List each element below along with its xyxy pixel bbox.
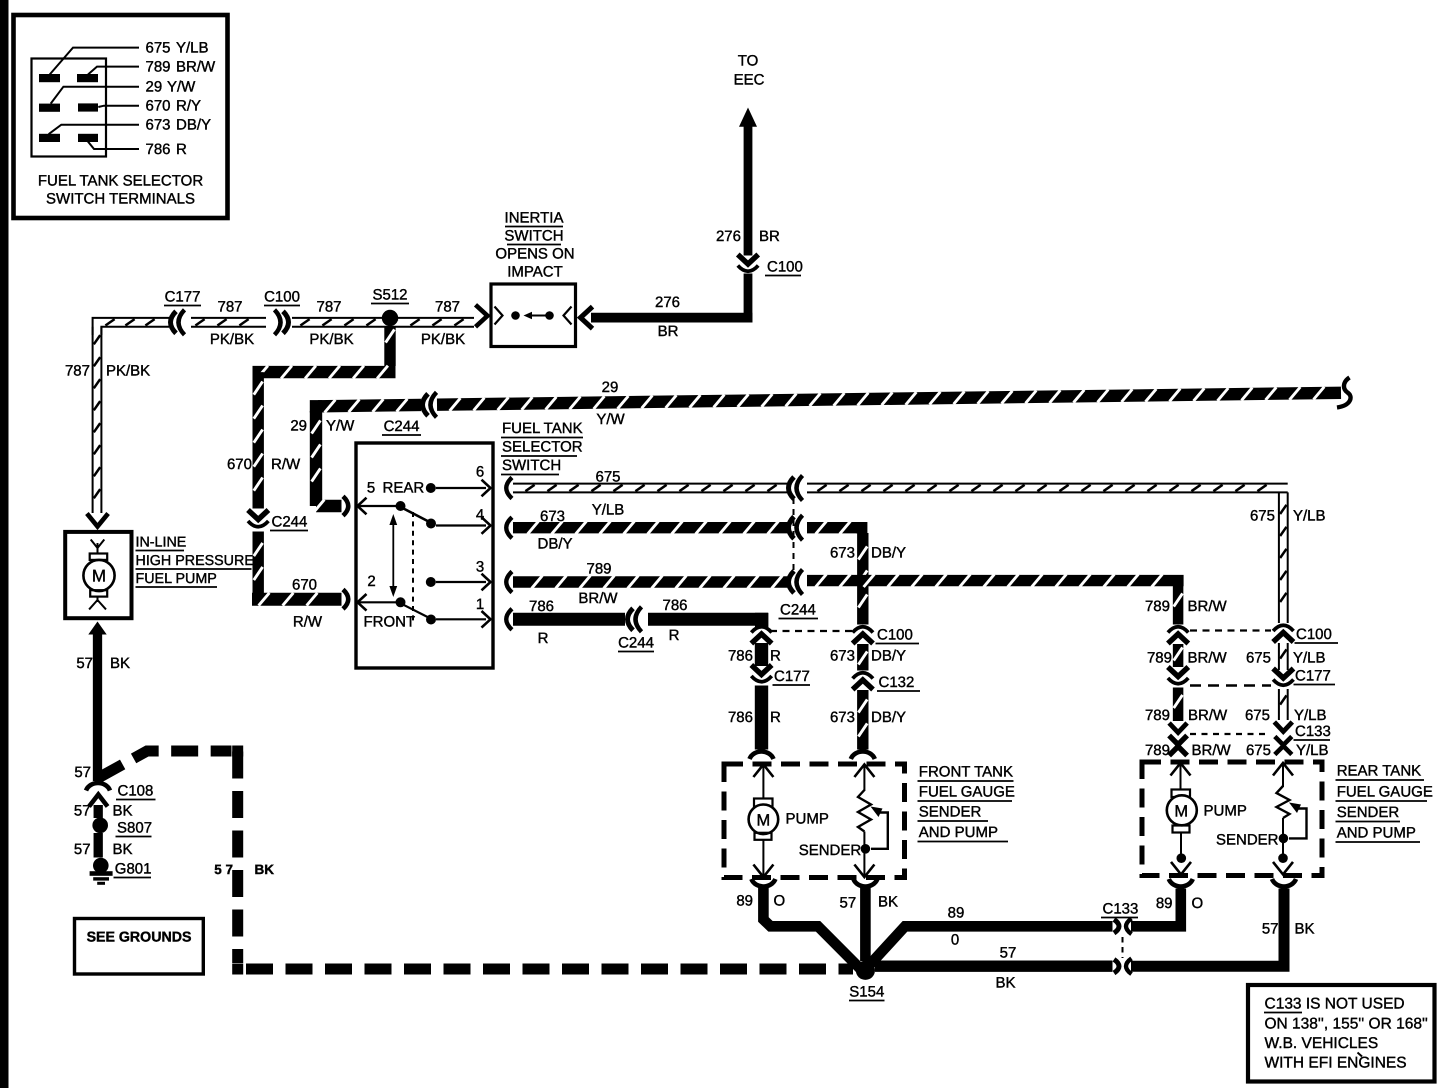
connector C100 on 787 [275,310,289,335]
switch pin 6 arrow [482,480,491,497]
svg-text:675: 675 [146,40,171,57]
butt connector on 675 [1275,737,1292,755]
svg-text:57: 57 [840,895,857,912]
switch pin 2 wiper [358,597,406,607]
front sender branch arrow [854,765,874,778]
label 57 over bottom [1000,945,1017,962]
label 786 R v3 [728,709,781,726]
connector C133 on 89 wire [1114,919,1132,935]
svg-text:BR/W: BR/W [1188,650,1228,667]
dashed line C100 left pair [770,630,852,632]
wire 670 R/W to pin2 [252,593,342,606]
label BR/W under [578,590,618,607]
label 789 BR/W v3 [1145,707,1228,724]
connector C244 on 675 [789,476,803,501]
svg-text:R/Y: R/Y [176,98,201,115]
wire 786 R horizontal B [648,613,768,626]
wire 787 seg C [292,318,474,327]
flare 789 at switch [506,572,512,593]
label 670 R/Y [146,98,202,115]
svg-text:673: 673 [830,545,855,562]
wire 57 BK S154 to C133 [875,961,1113,972]
svg-text:786: 786 [662,597,687,614]
wire 57 BK C133 to rear sender [1131,889,1284,967]
svg-text:S154: S154 [849,984,884,1001]
svg-text:3: 3 [476,559,484,576]
svg-text:DB/Y: DB/Y [176,117,211,134]
svg-text:REAR: REAR [383,480,425,497]
label 89 O rear [1156,895,1203,912]
svg-text:Y/W: Y/W [596,411,625,428]
flare 670 end [343,590,348,609]
rear pump exit arrow [1171,862,1191,875]
wire 276 BR vertical upper [744,126,753,256]
svg-text:675: 675 [1245,707,1270,724]
front pump exit arrow [753,865,773,878]
label pin 3 [476,559,484,576]
wire 789 BR/W horizontal A [513,576,789,589]
svg-text:789: 789 [1145,598,1170,615]
svg-text:670: 670 [227,456,252,473]
SEE GROUNDS box [75,919,204,975]
label FRONT [364,614,416,631]
front sender wiper arrow [871,807,888,849]
label 787 left vertical [65,363,90,380]
svg-text:89: 89 [948,905,965,922]
note text [1264,996,1428,1072]
arrow to EEC [739,108,757,127]
label 675 Y/LB right bend [1250,508,1326,525]
connector C177 on 786 [751,665,771,682]
label 57 BK below pump [76,655,130,672]
front pump motor [749,799,779,840]
ground G801 [90,858,113,885]
flare under front pump [751,879,775,887]
svg-text:Y/W: Y/W [326,418,355,435]
svg-text:PUMP: PUMP [1204,803,1247,820]
svg-text:673: 673 [830,709,855,726]
svg-text:IN-LINE: IN-LINE [136,535,187,551]
svg-text:673: 673 [830,648,855,665]
svg-text:C100: C100 [1296,626,1332,643]
svg-text:SENDER: SENDER [919,804,982,821]
svg-text:TO: TO [738,53,759,70]
wire 673 DB/Y v3 [858,690,867,750]
label C244 above switch [382,418,421,435]
svg-text:FUEL TANK: FUEL TANK [502,420,583,437]
svg-text:S807: S807 [117,820,152,837]
svg-text:670: 670 [292,577,317,594]
svg-text:SEE GROUNDS: SEE GROUNDS [87,930,192,946]
svg-text:675: 675 [1250,508,1275,525]
legend terminal pad 2L [39,104,60,112]
svg-text:Y/LB: Y/LB [592,502,625,519]
label R under A [538,630,549,647]
label C132 [877,674,920,691]
svg-text:57: 57 [74,841,91,858]
label 673 DB/Y [146,117,212,134]
label C177 mid [773,668,811,685]
svg-text:C177: C177 [774,668,810,685]
svg-text:G801: G801 [115,861,152,878]
legend terminal pad 1R [77,74,98,82]
label M front pump [757,811,771,829]
wire 789 BR/W horizontal B [807,574,1184,587]
rear pump branch arrow [1171,763,1191,776]
svg-text:IMPACT: IMPACT [507,264,563,281]
connector C133 on 57 wire [1114,958,1132,974]
switch travel arrow [389,514,397,597]
wire 89 O S154 to C133 [870,926,1113,965]
svg-text:1: 1 [476,596,484,613]
svg-text:789: 789 [586,561,611,578]
label SENDER rear [1216,832,1279,849]
wire 673 DB/Y vertical upper [858,533,867,625]
label 675 Y/LB at box [1246,742,1329,759]
legend terminal pad 2R [78,103,98,111]
switch dashed link [412,512,414,623]
legend leader 675 [50,48,139,75]
front pump branch arrow [753,765,773,778]
svg-text:789: 789 [1147,650,1172,667]
label 787 segB [217,299,242,316]
label C100 mid [876,627,920,644]
svg-text:670: 670 [146,98,171,115]
wire 670 R/W vertical lower [254,532,263,606]
arrow 29 into switch [358,498,367,515]
label 789 BR/W bend [1145,598,1228,615]
svg-text:C133: C133 [1295,723,1331,740]
svg-text:29: 29 [146,79,163,96]
svg-text:O: O [1192,895,1204,912]
svg-text:DB/Y: DB/Y [537,536,572,553]
wire 673 DB/Y horizontal A [513,521,789,534]
svg-text:675: 675 [1246,742,1271,759]
wire 673 DB/Y horizontal B [807,521,857,534]
label C244 on 670 [270,514,308,531]
flare 673 at front box [851,752,875,760]
svg-text:C133 IS NOT USED: C133 IS NOT USED [1265,996,1405,1013]
switch pin 3 contact [426,577,486,587]
switch wiper arm front [403,604,430,618]
dashed link C133 bottom [1122,937,1124,958]
label M rear pump [1174,802,1188,820]
label 57 BK front [840,894,899,912]
label C177 right [1294,668,1336,685]
label PUMP front [786,811,829,828]
svg-text:BR/W: BR/W [1188,707,1228,724]
svg-text:FRONT: FRONT [364,614,416,631]
connector C100 on 675 [1273,625,1293,642]
wire 29 Y/W vertical [312,411,321,506]
wire 670 R/W vertical upper [254,372,263,508]
label 0 under right [951,932,959,949]
svg-text:786: 786 [529,598,554,615]
svg-text:89: 89 [736,893,753,910]
legend caption [38,173,203,208]
label 673 DB/Y v2 [830,648,906,665]
svg-text:789: 789 [146,59,171,76]
legend leader 673 [49,125,139,135]
svg-text:R: R [538,630,549,647]
legend leader 670 [98,106,139,107]
connector C108 [86,783,110,807]
label 675 Y/LB v2 [1246,650,1326,667]
connector C132 on 673 [853,673,873,690]
front sender wire bottom [863,832,865,877]
label C244 under 789 [779,602,819,619]
rear sender wire bottom [1282,818,1284,855]
svg-text:276: 276 [716,228,741,245]
switch pin 1 arrow [482,611,491,628]
svg-text:C244: C244 [384,418,420,435]
wire 786 R vertical upper [755,613,768,628]
label 57 BK rear [1262,921,1315,938]
rear pump motor [1167,790,1197,833]
svg-text:Y/W: Y/W [167,79,196,96]
arrow 670 into switch [358,594,367,611]
wire 673 DB/Y v2 [858,644,867,671]
connector C244 on 789 [789,570,803,595]
wire 787 seg B [191,318,266,327]
svg-text:HIGH PRESSURE: HIGH PRESSURE [136,553,254,569]
svg-text:C100: C100 [877,627,913,644]
svg-text:SWITCH: SWITCH [504,228,563,245]
label 786 R [146,141,188,158]
label pin 6 [476,464,484,481]
svg-text:DB/Y: DB/Y [871,648,906,665]
dashed line C133 right pair [1190,733,1266,735]
svg-text:PK/BK: PK/BK [210,331,254,348]
svg-text:M: M [757,811,771,829]
svg-text:FUEL PUMP: FUEL PUMP [136,571,217,587]
label 29 Y/W [146,79,197,96]
label 57 BK mid [74,803,133,820]
wire 786 R v2 [755,643,768,666]
svg-text:C244: C244 [272,514,308,531]
dashed line C177 right pair [1190,684,1271,687]
legend leader 789 [88,67,139,75]
svg-text:R: R [669,627,680,644]
svg-text:5 7: 5 7 [214,862,233,877]
wire 57 BK S807-G801 [94,833,103,858]
legend terminal pad 3R [78,134,98,142]
svg-text:675: 675 [595,469,620,486]
fuel tank selector switch box [356,443,493,668]
svg-text:Y/LB: Y/LB [176,40,209,57]
flare 786 at front box [750,752,774,760]
connector C177 on 675 [1273,669,1293,686]
wire 675 Y/LB vertical upper [1279,492,1288,623]
svg-text:Y/LB: Y/LB [1296,742,1329,759]
legend leader 786 [87,140,139,149]
label FRONT TANK FUEL GAUGE SENDER AND PUMP [918,764,1015,842]
svg-text:SWITCH TERMINALS: SWITCH TERMINALS [46,191,195,208]
svg-text:276: 276 [655,294,680,311]
svg-text:0: 0 [951,932,959,949]
connector C244 on 673 [789,515,803,540]
svg-text:PK/BK: PK/BK [309,331,353,348]
label 675 Y/LB [146,40,209,57]
svg-text:Y/LB: Y/LB [1293,508,1326,525]
rear sender exit arrow [1273,862,1293,875]
svg-text:Y/LB: Y/LB [1293,650,1326,667]
arrow 787 into fuel pump [87,514,108,527]
front pump wire top [762,765,764,799]
svg-text:787: 787 [217,299,242,316]
splice S512 [382,310,398,326]
connector C244 on 29 [423,392,437,417]
svg-text:675: 675 [1246,650,1271,667]
svg-text:WITH EFI ENGINES: WITH EFI ENGINES [1265,1055,1407,1072]
svg-text:BR/W: BR/W [578,590,618,607]
svg-text:4: 4 [476,507,484,524]
label 786 R v2 [728,648,781,665]
svg-text:786: 786 [728,648,753,665]
svg-text:6: 6 [476,464,484,481]
label BK under bottom [995,975,1015,992]
flare under rear sender [1272,879,1296,887]
label FUEL TANK SELECTOR SWITCH [501,420,583,475]
front sender exit arrow [854,865,874,878]
rear tank box [1142,762,1322,876]
pump motor symbol [83,540,114,610]
switch pin 1 contact [426,615,486,625]
label 57 at junction [74,764,91,781]
label C133 bottom [1101,901,1138,918]
wire 29 Y/W horizontal [310,387,1341,413]
wire 89 O front pump to S154 [763,888,860,969]
svg-text:BK: BK [113,803,133,820]
wire 787 PK/BK horizontal seg A [93,318,169,335]
note box C133 [1248,985,1435,1082]
svg-text:S512: S512 [372,287,407,304]
flare 786 at switch [506,609,512,630]
label 670 over [292,577,317,594]
in-line fuel pump box [65,532,131,618]
connector C177 on 789 [1168,667,1188,684]
label pin 1 [476,596,484,613]
svg-text:787: 787 [65,363,90,380]
connector C100 on 789 [1168,627,1188,644]
connector C100 on 786 [751,627,771,644]
label R under B [669,627,680,644]
svg-text:Y/LB: Y/LB [1294,707,1327,724]
label DB/Y under [537,536,572,553]
svg-text:ON 138'', 155'' OR 168'': ON 138'', 155'' OR 168'' [1265,1015,1428,1032]
label C100 [765,259,803,276]
wire 787 vertical [93,327,102,513]
legend box FUEL TANK SELECTOR SWITCH TERMINALS frame [14,15,228,218]
svg-text:787: 787 [435,299,460,316]
svg-text:C244: C244 [618,635,654,652]
splice S154 [856,961,875,980]
legend leader 29 [51,87,139,104]
rear sender wire top [1282,764,1284,788]
svg-text:BK: BK [110,655,130,672]
legend connector body [32,59,107,157]
front sender wire top [863,765,865,791]
label 789 BR/W [146,59,217,76]
svg-text:BR/W: BR/W [1188,598,1228,615]
svg-text:789: 789 [1145,707,1170,724]
wire 789 BR/W v3 [1174,688,1183,722]
connector C100 on 276 wire [738,255,758,272]
label 57 BK low [74,841,133,858]
svg-text:2: 2 [367,573,375,590]
legend terminal pad 3L [39,134,60,142]
label 789 BR/W v2 [1147,650,1228,667]
svg-text:SENDER: SENDER [1216,832,1279,849]
svg-text:REAR TANK: REAR TANK [1337,763,1421,780]
label 675 Y/LB v3 [1245,707,1327,724]
switch pin 6 contact [426,483,486,493]
svg-text:OPENS ON: OPENS ON [495,246,574,263]
rear pump wire top [1180,764,1182,791]
front tank box [724,764,905,878]
svg-text:BK: BK [1295,921,1315,938]
label INERTIA SWITCH OPENS ON IMPACT [495,210,574,281]
label 276 BR at C100 [716,228,780,245]
flare under rear pump [1169,879,1193,887]
svg-text:R/W: R/W [293,614,323,631]
wire 786 R horizontal A [513,613,625,626]
label PK/BK segC [309,331,353,348]
page left margin bar [0,0,9,1088]
svg-text:BK: BK [995,975,1015,992]
svg-text:M: M [92,567,106,586]
label C100 right [1295,626,1339,643]
dashed line C244 column [793,498,795,574]
wire 57 BK front sender to S154 [860,888,871,961]
label 673 over [540,508,565,525]
svg-text:673: 673 [146,117,171,134]
connector C177 on 787 [171,310,185,335]
label C177 [164,289,201,306]
label PK/BK segB [210,331,254,348]
label 786 over B [662,597,687,614]
label 787 segD [435,299,460,316]
label BR under wire [658,323,679,340]
svg-text:C177: C177 [165,289,201,306]
switch pin 4 contact [426,519,486,529]
label 787 segC [316,299,341,316]
svg-text:EEC: EEC [734,72,765,89]
svg-text:786: 786 [728,709,753,726]
rear sender wiper arrow [1289,803,1307,839]
svg-text:786: 786 [146,141,171,158]
front sender tap dot [861,844,871,854]
connector C244 on 670 [248,510,268,527]
dashed line C100 right pair [1190,629,1271,631]
inertia switch contacts [495,307,572,325]
svg-text:C244: C244 [780,602,816,619]
label TO EEC [734,53,765,89]
label REAR TANK FUEL GAUGE SENDER AND PUMP [1336,763,1433,843]
butt connector on 789 [1169,736,1187,756]
svg-text:C108: C108 [118,783,154,800]
svg-text:PUMP: PUMP [786,811,829,828]
svg-text:SENDER: SENDER [1337,804,1400,821]
wire 675 Y/LB v3 [1279,689,1288,720]
label C244 under 786 [618,635,654,652]
arrow into inertia switch right [581,307,593,329]
svg-text:INERTIA: INERTIA [505,210,564,227]
wire 670 R/W from S512 [386,326,395,366]
inertia switch box [491,284,576,347]
wire 89 O C133 to rear pump [1131,889,1181,927]
svg-text:C100: C100 [767,259,803,276]
